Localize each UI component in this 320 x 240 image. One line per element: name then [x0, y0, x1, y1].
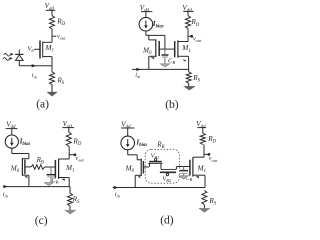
wire	[188, 83, 190, 86]
ground (c)	[65, 210, 76, 214]
svg-text:(d): (d)	[160, 215, 174, 227]
gate wire (c)	[44, 166, 55, 168]
capacitor CB (d)	[183, 167, 185, 170]
resistor RD (c)	[66, 132, 71, 146]
transistor M1 (a)	[39, 41, 41, 59]
wire	[193, 174, 205, 176]
wire	[69, 206, 71, 210]
wire	[160, 163, 162, 169]
gate wire (d)	[143, 166, 149, 168]
wire	[203, 205, 205, 208]
diode-connect wire (b)	[164, 35, 166, 49]
wire	[22, 158, 29, 160]
capacitor CB (c)	[50, 167, 52, 174]
bias network box RB (d)	[145, 149, 179, 183]
input wire iin (a)	[19, 65, 52, 67]
transistor M1 (d)	[189, 160, 191, 176]
node vout (d)	[204, 153, 208, 155]
photodiode (a)	[18, 49, 20, 54]
input wire iin (c)	[3, 186, 70, 188]
svg-text:(a): (a)	[36, 98, 49, 110]
wire	[202, 128, 204, 133]
wire	[11, 129, 13, 135]
ground (d)	[199, 208, 209, 212]
ground (a)	[47, 92, 57, 96]
wire	[127, 128, 129, 136]
capacitor CB (b)	[164, 49, 166, 54]
wire	[178, 55, 189, 57]
ground (b)	[184, 86, 195, 90]
source arrow M1 (c)	[61, 179, 65, 181]
wire	[22, 174, 29, 176]
wire	[11, 148, 13, 153]
MOS resistor lower VB2 (d)	[161, 168, 176, 170]
MOS resistor upper VB1 (d)	[149, 164, 151, 168]
resistor RD (b)	[186, 16, 191, 29]
svg-text:(c): (c)	[35, 215, 48, 227]
transistor M0 (b)	[155, 39, 157, 57]
wire	[68, 128, 70, 133]
resistor RS (b)	[186, 72, 191, 83]
current source Ibias (b)	[139, 17, 153, 31]
source arrow M0 (c)	[24, 176, 27, 178]
wire	[59, 158, 70, 160]
resistor RS (d)	[202, 190, 207, 204]
transistor M0 (c)	[21, 158, 23, 176]
wire	[51, 29, 53, 42]
node vout (c)	[69, 154, 74, 156]
gate wire (b)	[159, 48, 175, 50]
wire	[148, 35, 150, 40]
wire	[43, 41, 52, 43]
ground CB (b)	[161, 64, 170, 67]
source arrow M1 (d)	[195, 176, 199, 178]
resistor RS (c)	[69, 187, 71, 194]
light arrows (a)	[4, 54, 12, 57]
wire	[149, 55, 156, 57]
source arrow M0 (b)	[150, 57, 154, 59]
svg-text:(b): (b)	[165, 99, 179, 111]
resistor RD (a)	[50, 16, 55, 30]
resistor RB (c)	[25, 166, 31, 168]
current source Ibias (d)	[121, 136, 135, 150]
wire	[51, 85, 53, 92]
wire	[127, 150, 129, 155]
wire	[193, 156, 204, 158]
input wire iin (b)	[132, 68, 189, 70]
node vout (a)	[52, 35, 56, 37]
transistor M1 (b)	[174, 41, 176, 57]
wire	[137, 159, 141, 161]
ground CB (c)	[45, 183, 54, 186]
resistor RD (d)	[200, 133, 205, 144]
transistor M1 (c)	[54, 160, 56, 178]
wire	[178, 41, 188, 43]
wire	[135, 174, 141, 176]
wire	[187, 11, 189, 15]
wire	[59, 177, 70, 179]
wire	[145, 31, 147, 35]
wire	[175, 167, 177, 170]
wire	[145, 12, 147, 18]
transistor M0 (d)	[140, 159, 142, 176]
resistor RS (a)	[51, 66, 53, 72]
source arrow M0 (d)	[138, 176, 141, 178]
node vout (b)	[188, 35, 191, 37]
ground CB (d)	[179, 176, 188, 179]
wire	[51, 10, 53, 15]
current source Ibias (c)	[5, 135, 18, 148]
input wire iin (d)	[113, 187, 206, 189]
wire	[43, 56, 52, 58]
source arrow M1 (b)	[182, 60, 185, 62]
